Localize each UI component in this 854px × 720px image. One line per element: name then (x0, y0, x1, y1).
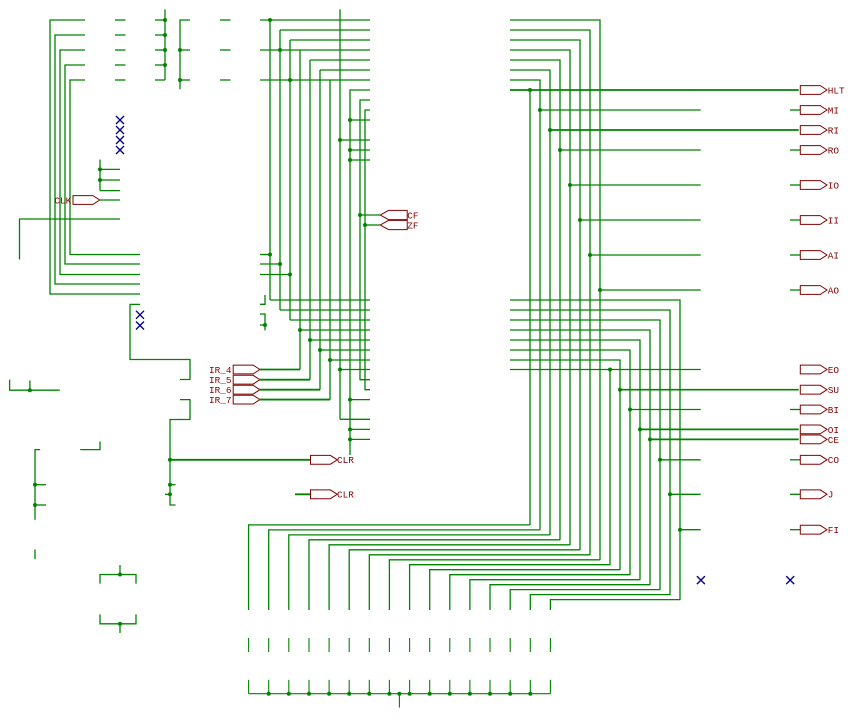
wire comb wire 6 (349, 550, 580, 610)
wire tick 16 (549, 638, 551, 652)
junction at (170,494.3) (168, 492, 172, 496)
wire stub row439.4 (350, 438, 370, 440)
wire dash seg col115 y65 (115, 64, 126, 66)
no-connect flag at (140,315) (136, 311, 144, 319)
wire CLR stub (295, 493, 311, 495)
wire nest2 row310 via x670 (510, 310, 670, 595)
wire vertical x340 (339, 9, 341, 419)
svg-text:II: II (828, 215, 839, 226)
hierarchical label EO (800, 365, 839, 376)
wire stub row150 (350, 149, 370, 151)
wire top-left nest 5 (70, 80, 140, 255)
hierarchical label IR_4 (209, 365, 260, 376)
wire nest2 row350 via x630 (510, 350, 630, 575)
wire CO stub at label (790, 459, 800, 461)
no-connect flag at (120,150) (116, 146, 124, 154)
wire comb wire 12 (470, 580, 640, 610)
hierarchical label AI (800, 250, 839, 261)
wire hanger tick 9 (409, 680, 411, 694)
wire stub row369 (340, 369, 370, 371)
hierarchical label IR_6 (209, 385, 260, 396)
wire comb wire 7 (369, 555, 590, 610)
hierarchical label CF (380, 210, 418, 221)
hierarchical label IR_5 (209, 375, 260, 386)
wire stub x100 row190 (100, 190, 120, 192)
junction at (350,399.6) (348, 398, 352, 402)
wire row350 central (320, 349, 370, 351)
junction at (350,439.4) (348, 437, 352, 441)
wire stub row429.4 (350, 428, 370, 430)
wire stub x165 row35 (155, 34, 165, 36)
junction at (550,130) (548, 128, 552, 132)
wire comb wire 1 (249, 525, 530, 610)
junction at (399.4,693.7) (397, 692, 401, 696)
wire top-left nest 3 (60, 50, 140, 275)
wire SU net (620, 389, 799, 391)
wire nest2 row360 via x620 (510, 360, 620, 570)
junction at (165,50) (163, 48, 167, 52)
wire hanger stem down (398, 694, 400, 708)
wire FI net (680, 529, 701, 531)
wire tick 2 (268, 638, 270, 652)
hierarchical label CLR lower (311, 490, 355, 501)
wire comb wire 5 (329, 545, 570, 610)
junction at (349.2,693.7) (347, 692, 351, 696)
junction at (280,264) (278, 262, 282, 266)
svg-text:CLR: CLR (337, 455, 354, 466)
wire vertical x100 (99, 160, 101, 191)
wire stub x100 row169.4 (100, 168, 120, 170)
wire hanger tick 2 (268, 680, 270, 694)
wire row330 central (300, 329, 370, 331)
wire stub row264 (260, 263, 280, 265)
junction at (309.0,693.7) (307, 692, 311, 696)
svg-text:AO: AO (828, 285, 840, 296)
wire comb wire 2 (269, 530, 540, 610)
hierarchical label RO (800, 145, 839, 156)
wire comb wire 3 (289, 535, 550, 610)
junction at (350,160) (348, 158, 352, 162)
svg-text:EO: EO (828, 365, 840, 376)
wire row320 central (290, 319, 370, 321)
wire stem upper U (119, 565, 121, 575)
wire tick 12 (469, 638, 471, 652)
wire MI stub at label (790, 109, 800, 111)
wire left T wire (10, 380, 60, 391)
junction at (620,389.7) (618, 388, 622, 392)
junction at (350,150) (348, 148, 352, 152)
wire row40 central (290, 39, 370, 41)
wire vertical x300 (299, 50, 301, 370)
svg-text:CE: CE (828, 435, 840, 446)
junction at (365,225) (363, 223, 367, 227)
svg-text:BI: BI (828, 405, 839, 416)
junction at (165,20) (163, 18, 167, 22)
wire lower U bracket (100, 614, 136, 623)
wire tick 11 (449, 638, 451, 652)
wire RO net (560, 149, 701, 151)
wire tick 9 (409, 638, 411, 652)
wire MI net (540, 109, 701, 111)
wire stub row484 (170, 484, 176, 486)
wire stub row140 (340, 139, 370, 141)
junction at (165,35) (163, 33, 167, 37)
junction at (389.4,693.7) (387, 692, 391, 696)
svg-text:RI: RI (828, 125, 839, 136)
wire J net (670, 493, 701, 495)
wire zig-zag upper (130, 304, 190, 379)
junction at (290,274.5) (288, 273, 292, 277)
wire nest1 row40 via x580 (510, 40, 580, 550)
hierarchical label CO (800, 455, 839, 466)
wire nest2 row300 via x680 (510, 300, 680, 600)
wire hanger tick 10 (429, 680, 431, 694)
junction at (560,150) (558, 148, 562, 152)
svg-text:AI: AI (828, 250, 839, 261)
junction at (530,90) (528, 88, 532, 92)
wire EO net (510, 369, 701, 371)
wire stub x180 row50 (180, 49, 190, 51)
wire IO net (570, 184, 701, 186)
wire OI net (640, 428, 799, 430)
wire top-left nest 2 (55, 35, 140, 284)
wire tick 15 (529, 638, 531, 652)
wire zig-zag to CLR vertical (170, 400, 190, 505)
junction at (570,185) (568, 183, 572, 187)
hierarchical label CLK (54, 195, 99, 206)
svg-text:CLR: CLR (337, 490, 354, 501)
wire hanger tick 5 (328, 680, 330, 694)
svg-text:ZF: ZF (407, 220, 418, 231)
wire hanger tick 1 (248, 680, 250, 694)
wire vertical x530 (529, 90, 531, 525)
junction at (329.1,693.7) (327, 692, 331, 696)
wire nest1 row30 via x590 (510, 30, 590, 555)
junction at (409.6,693.7) (408, 692, 412, 696)
wire tick 7 (368, 638, 370, 652)
junction at (369.3,693.7) (367, 692, 371, 696)
wire FI stub at label (790, 529, 800, 531)
wire vertical x360 (360, 100, 370, 380)
wire hanger tick 16 (549, 680, 551, 694)
wire hanger tick 8 (388, 680, 390, 694)
junction at (610,369.5) (608, 368, 612, 372)
svg-text:FI: FI (828, 525, 839, 536)
wire BI stub at label (790, 409, 800, 411)
junction at (170,484.7) (168, 483, 172, 487)
svg-text:IO: IO (828, 180, 840, 191)
wire hanger tick 14 (509, 680, 511, 694)
hierarchical label CE (800, 435, 839, 446)
wire row30 central (280, 29, 370, 31)
wire AO stub at label (790, 289, 800, 291)
hierarchical label MI (800, 105, 839, 116)
wire stub x165 row50 (155, 49, 165, 51)
wire stub x165 row20 (155, 19, 165, 21)
wire stem lower U (119, 624, 121, 633)
junction at (340,140) (338, 138, 342, 142)
wire stub x180 row80 (180, 79, 190, 81)
no-connect flag at (120,130) (116, 126, 124, 134)
hierarchical label OI (800, 425, 839, 436)
wire tick 14 (509, 638, 511, 652)
junction at (280,50) (278, 48, 282, 52)
junction at (510.2,693.7) (508, 692, 512, 696)
junction at (270,20) (268, 18, 272, 22)
wire nest2 row320 via x660 (510, 320, 660, 590)
svg-text:RO: RO (828, 145, 840, 156)
junction at (660,459.8) (658, 458, 662, 462)
hierarchical label HLT (800, 85, 845, 96)
wire dash seg col115 y80 (115, 79, 126, 81)
junction at (288.8,693.7) (287, 692, 291, 696)
wire tick 10 (429, 638, 431, 652)
no-connect flag at (790.2,580.1) (786, 576, 794, 584)
wire tick 8 (388, 638, 390, 652)
svg-text:SU: SU (828, 385, 839, 396)
wire vertical x610 (609, 370, 611, 566)
wire hook x265 lower (260, 314, 265, 330)
wire BI net (630, 409, 701, 411)
wire tick 3 (288, 638, 290, 652)
junction at (360,215) (358, 213, 362, 217)
wire stub up x29.9 (29, 380, 31, 390)
wire vertical x280 (279, 30, 281, 310)
wire stub row254 (260, 254, 270, 256)
hierarchical label AO (800, 285, 839, 296)
junction at (268.7,693.7) (267, 692, 271, 696)
junction at (320,350) (318, 348, 322, 352)
wire IR_5 net (259, 379, 310, 381)
hierarchical label BI (800, 405, 839, 416)
wire tick 4 (308, 638, 310, 652)
junction at (180,80) (178, 78, 182, 82)
junction at (100,169.4) (98, 167, 102, 171)
junction at (340,369.5) (338, 368, 342, 372)
junction at (540,110) (538, 108, 542, 112)
junction at (640,429.4) (638, 427, 642, 431)
wire stub x165 row80 (155, 79, 165, 81)
svg-text:MI: MI (828, 105, 839, 116)
svg-text:HLT: HLT (828, 85, 845, 96)
wire AO net (600, 289, 701, 291)
wire J stub at label (790, 493, 800, 495)
wire nest1 row20 via x600 (510, 20, 600, 560)
wire comb wire 9 (410, 565, 610, 610)
junction at (35,505) (33, 503, 37, 507)
wire II stub at label (790, 219, 800, 221)
wire vertical x290 (289, 40, 291, 320)
wire hanger tick 11 (449, 680, 451, 694)
wire dash seg col220 y80 (220, 79, 231, 81)
wire hanger bus bar (249, 693, 551, 695)
junction at (469.9,693.7) (468, 692, 472, 696)
svg-text:CO: CO (828, 455, 840, 466)
wire top-left nest 4 (65, 65, 140, 264)
wire row340 central (310, 339, 370, 341)
junction at (530.3,693.7) (528, 692, 532, 696)
wire CLK output (99, 199, 120, 201)
wire nest2 row340 via x640 (510, 340, 640, 580)
wire stub x165 row65 (155, 64, 165, 66)
svg-text:J: J (828, 490, 834, 501)
wire vertical bus x180 (180, 20, 190, 89)
wire stub row399.6 (350, 399, 370, 401)
wire row70 central (320, 69, 370, 71)
wire vertical x320 (319, 70, 321, 390)
junction at (580,220) (578, 218, 582, 222)
wire AI net (590, 254, 701, 256)
wire CLR net (170, 459, 311, 461)
wire row300 central (270, 299, 370, 301)
wire vertical bus x165 (164, 9, 166, 80)
wire HLT net (510, 89, 799, 91)
no-connect flag at (120,140) (116, 136, 124, 144)
wire nest2 row330 via x650 (510, 330, 650, 585)
wire comb wire 13 (490, 585, 650, 610)
wire row360 central (330, 359, 370, 361)
wire CO net (660, 459, 701, 461)
junction at (165,65) (163, 63, 167, 67)
wire dash seg col115 y35 (115, 34, 126, 36)
junction at (120,623.8) (118, 622, 122, 626)
wire stub x35 row505 (35, 504, 46, 506)
wire RO stub at label (790, 149, 800, 151)
wire dash seg col220 y50 (220, 49, 231, 51)
hierarchical label ZF (380, 220, 418, 231)
wire hanger tick 7 (368, 680, 370, 694)
junction at (650,439.4) (648, 437, 652, 441)
junction at (290,80) (288, 78, 292, 82)
wire stub row494 (165, 493, 170, 495)
wire comb wire 8 (389, 560, 600, 610)
junction at (170,459.8) (168, 458, 172, 462)
junction at (120,574.5) (118, 573, 122, 577)
junction at (600,290) (598, 288, 602, 292)
wire vertical x365 (365, 110, 370, 390)
wire vertical x330 (329, 80, 331, 400)
wire vertical x35 (35, 450, 40, 520)
junction at (670,494.3) (668, 492, 672, 496)
wire nest1 row70 via x550 (510, 70, 550, 535)
junction at (100,180) (98, 178, 102, 182)
junction at (330,360) (328, 358, 332, 362)
wire stub row120 (350, 119, 370, 121)
wire IR_7 net (259, 399, 330, 401)
wire CF (360, 214, 380, 216)
wire hook x265 upper (260, 295, 265, 304)
wire dash seg col115 y50 (115, 49, 126, 51)
wire nest1 row50 via x570 (510, 50, 570, 545)
wire IR_4 net (259, 369, 300, 371)
wire tick 1 (248, 638, 250, 652)
wire upper U bracket (100, 575, 136, 584)
hierarchical label RI (800, 125, 839, 136)
wire stub row274 (260, 274, 290, 276)
wire comb wire 10 (430, 570, 620, 610)
wire stub row160 (350, 159, 370, 161)
junction at (310,340) (308, 338, 312, 342)
wire RI net (550, 129, 799, 131)
wire comb wire 14 (510, 590, 660, 610)
wire II net (580, 219, 701, 221)
wire hanger tick 13 (489, 680, 491, 694)
no-connect flag at (140,326) (136, 322, 144, 330)
hierarchical label SU (800, 385, 839, 396)
junction at (270,254.5) (268, 253, 272, 257)
wire row80 central (260, 79, 370, 81)
wire L-wire left x19 (20, 219, 121, 260)
junction at (300,330) (298, 328, 302, 332)
wire vertical x270 (269, 20, 271, 300)
wire row60 central (310, 59, 370, 61)
wire row20 central (260, 19, 370, 21)
wire nest1 row60 via x560 (510, 60, 560, 540)
wire tick 6 (348, 638, 350, 652)
wire hanger tick 15 (529, 680, 531, 694)
wire comb wire 11 (450, 575, 630, 610)
junction at (350,429.4) (348, 427, 352, 431)
svg-text:IR_7: IR_7 (209, 395, 232, 406)
wire CE net (650, 438, 799, 440)
junction at (490.0,693.7) (488, 692, 492, 696)
hierarchical label FI (800, 525, 839, 536)
wire dash seg col220 y20 (220, 19, 231, 21)
junction at (449.8,693.7) (448, 692, 452, 696)
no-connect flag at (700.9,580.1) (697, 576, 705, 584)
wire tick 13 (489, 638, 491, 652)
wire hanger tick 6 (348, 680, 350, 694)
wire stub x100 row180 (100, 179, 120, 181)
wire hanger tick 3 (288, 680, 290, 694)
wire small corner x100 (80, 442, 100, 450)
junction at (630,409.5) (628, 408, 632, 412)
svg-text:CLK: CLK (54, 195, 71, 206)
hierarchical label CLR upper (311, 455, 355, 466)
junction at (429.7,693.7) (428, 692, 432, 696)
wire nest1 row80 via x540 (510, 80, 540, 530)
wire row310 central (280, 309, 370, 311)
wire stub x35 row484.7 (35, 484, 46, 486)
junction at (180,50) (178, 48, 182, 52)
wire AI stub at label (790, 254, 800, 256)
wire comb wire 15 (530, 595, 670, 610)
wire dash seg col115 y20 (115, 19, 126, 21)
hierarchical label IO (800, 180, 839, 191)
no-connect flag at (120,120) (116, 116, 124, 124)
wire stub row325 (260, 324, 265, 326)
junction at (35,484.7) (33, 483, 37, 487)
hierarchical label II (800, 215, 839, 226)
wire comb wire 4 (309, 540, 560, 610)
wire tick 5 (328, 638, 330, 652)
wire tick x35 (34, 550, 36, 560)
wire vertical x350 with top corner (350, 90, 370, 455)
junction at (350,120) (348, 118, 352, 122)
junction at (265,325) (263, 323, 267, 327)
junction at (680,529.7) (678, 528, 682, 532)
hierarchical label J (800, 490, 833, 501)
wire ZF (365, 224, 380, 226)
junction at (590,255) (588, 253, 592, 257)
wire hanger tick 4 (308, 680, 310, 694)
hierarchical label IR_7 (209, 395, 260, 406)
junction at (29.9,390.2) (28, 388, 32, 392)
wire IR_6 net (259, 389, 320, 391)
wire stub row419 (340, 418, 370, 420)
wire comb wire 16 (550, 600, 680, 610)
wire IO stub at label (790, 184, 800, 186)
